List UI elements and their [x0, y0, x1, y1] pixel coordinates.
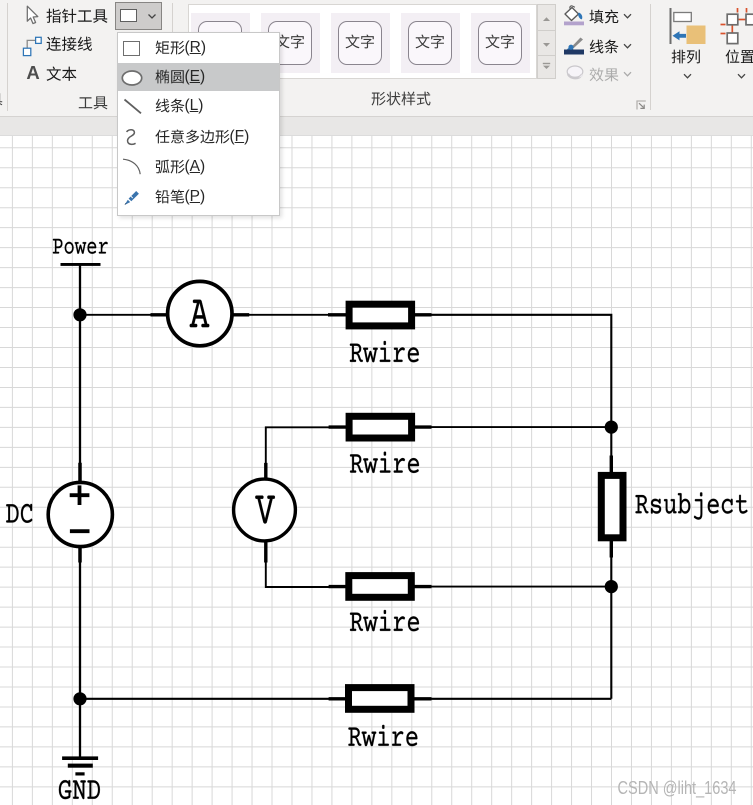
label Rwire1: [350, 341, 419, 362]
DC plus sign: [70, 485, 90, 505]
wire: node A to ammeter: [80, 314, 152, 316]
node label GND: [59, 780, 100, 799]
node D: [73, 692, 86, 705]
lead stubs DC source: [78, 463, 82, 563]
power terminal bar: [61, 263, 101, 266]
menu icon pencil: [122, 189, 141, 207]
wire: Rwire3 to node C: [414, 586, 611, 588]
label Rwire3: [350, 610, 419, 631]
wire: right vertical between nodes through Rsubject: [610, 427, 612, 586]
lead stubs Rwire2: [329, 425, 432, 428]
lead stubs ammeter: [151, 313, 250, 316]
menu icon line: [123, 98, 143, 115]
wire: voltmeter bottom branch: [266, 543, 346, 587]
voltmeter U-V: [234, 479, 296, 541]
label Rwire2: [350, 452, 419, 473]
resistor Rsubject: [601, 475, 623, 537]
wire: voltmeter top branch: [266, 427, 346, 477]
lead stubs Rsubject: [610, 456, 613, 558]
menu icon rectangle: [123, 41, 141, 56]
wire: Rwire1 to top-right corner and down: [414, 315, 611, 427]
wire: left vertical power rail: [79, 265, 81, 757]
DC source circle: [48, 482, 112, 546]
label DC: [6, 504, 32, 523]
lead stubs Rwire4: [329, 697, 432, 700]
menu icon ellipse: [121, 70, 143, 86]
svg-text:CSDN @liht_1634: CSDN @liht_1634: [618, 778, 737, 799]
lead stubs Rwire1: [328, 313, 432, 316]
wire: right vertical to bottom corner: [610, 587, 612, 699]
node label Power: [53, 239, 108, 254]
node A: [73, 308, 86, 321]
label Rwire4: [348, 725, 417, 746]
label Rsubject: [636, 492, 748, 519]
menu icon freeform: [124, 128, 139, 147]
DC minus sign: [70, 529, 90, 533]
node C: [605, 580, 618, 593]
resistor Rwire2: [349, 416, 412, 438]
node B: [605, 421, 618, 434]
resistor Rwire4: [349, 688, 412, 710]
ammeter U-A: [168, 281, 232, 345]
wire: bottom rail: [80, 698, 611, 700]
wire: ammeter to Rwire1: [248, 314, 346, 316]
lead stubs voltmeter: [264, 463, 267, 563]
ground: [62, 756, 98, 775]
resistor Rwire3: [349, 576, 412, 598]
lead stubs Rwire3: [329, 585, 432, 588]
wire: Rwire2 to node B: [414, 426, 611, 428]
resistor Rwire1: [349, 304, 412, 326]
menu icon arc: [122, 157, 142, 175]
